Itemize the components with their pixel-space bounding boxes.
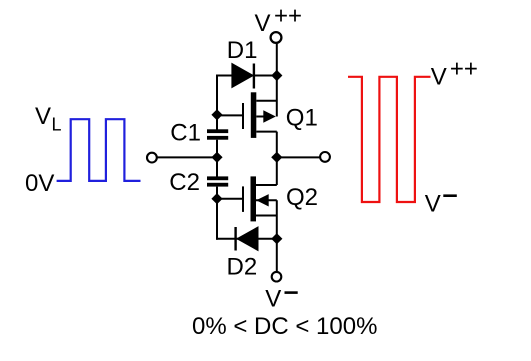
svg-text:C1: C1 bbox=[170, 120, 201, 147]
node: top junction (D1 cathode / V++) bbox=[271, 70, 282, 81]
label V- (output low level) bbox=[425, 191, 457, 218]
wire: C1 bottom to node C bbox=[216, 140, 218, 158]
capacitor C1 bbox=[207, 129, 228, 139]
wire: output node down to Q2 drain bbox=[276, 132, 278, 185]
svg-text:C2: C2 bbox=[169, 169, 200, 196]
label VL (input waveform) bbox=[35, 103, 62, 135]
svg-text:D1: D1 bbox=[227, 37, 258, 64]
node C (capacitor common node) bbox=[211, 152, 222, 163]
wire: left column D1 anode down to C1 bbox=[216, 75, 218, 130]
svg-text:0% < DC < 100%: 0% < DC < 100% bbox=[192, 313, 377, 340]
svg-text:L: L bbox=[52, 115, 62, 135]
wire: Q2 source down through bottom node to V- terminal bbox=[276, 200, 278, 271]
svg-text:++: ++ bbox=[274, 2, 302, 29]
svg-text:V: V bbox=[431, 64, 447, 91]
wire: Q1 gate lead bbox=[217, 114, 243, 116]
diode D2 bbox=[236, 227, 258, 251]
wire: input terminal to node C bbox=[157, 156, 217, 158]
output square wave (red) bbox=[348, 77, 431, 202]
svg-text:V: V bbox=[425, 191, 441, 218]
node: output junction bbox=[271, 152, 282, 163]
wire: node C down to C2 bbox=[216, 157, 218, 176]
wire: V++ terminal down through top node to Q1 body arrow bbox=[276, 43, 278, 116]
svg-text:0V: 0V bbox=[25, 170, 54, 197]
svg-text:++: ++ bbox=[450, 55, 478, 82]
wire: top rail (D1 row) bbox=[216, 75, 277, 77]
label D2 bbox=[227, 254, 258, 281]
svg-text:V: V bbox=[265, 286, 281, 313]
label V- (bottom supply) bbox=[265, 286, 297, 313]
label Q1 bbox=[286, 105, 318, 132]
wire: Q2 gate lead bbox=[217, 198, 243, 200]
svg-text:D2: D2 bbox=[227, 254, 258, 281]
capacitor C2 bbox=[207, 176, 228, 186]
transistor Q1 (P-channel MOSFET) bbox=[243, 92, 277, 138]
label D1 bbox=[227, 37, 258, 64]
input terminal (open circle) bbox=[147, 153, 157, 163]
wire: bottom rail (D2 row) bbox=[216, 238, 277, 240]
transistor Q2 (N-channel MOSFET) bbox=[243, 176, 277, 221]
node: Q1 gate junction bbox=[211, 109, 222, 120]
node: Q2 gate junction bbox=[211, 193, 222, 204]
svg-text:V: V bbox=[255, 10, 271, 37]
svg-text:Q2: Q2 bbox=[286, 184, 318, 211]
label 0V bbox=[25, 170, 54, 197]
wire: C2 bottom through Q2 gate junction down to bottom rail corner bbox=[216, 187, 218, 240]
label V++ (output high level) bbox=[431, 55, 478, 90]
label C1 bbox=[170, 120, 201, 147]
input square wave (blue) bbox=[57, 119, 141, 181]
caption: duty cycle range bbox=[192, 313, 377, 340]
svg-text:Q1: Q1 bbox=[286, 105, 318, 132]
label Q2 bbox=[286, 184, 318, 211]
terminal V++ (open circle) bbox=[271, 32, 282, 43]
terminal V- (open circle) bbox=[272, 272, 282, 282]
label V++ (top supply) bbox=[255, 2, 303, 37]
wire: output node to output terminal bbox=[277, 156, 320, 158]
node: bottom junction (D2 anode / V-) bbox=[271, 233, 282, 244]
svg-text:V: V bbox=[35, 103, 51, 130]
label C2 bbox=[169, 169, 200, 196]
diode D1 bbox=[232, 64, 254, 89]
output terminal (open circle) bbox=[320, 152, 330, 162]
